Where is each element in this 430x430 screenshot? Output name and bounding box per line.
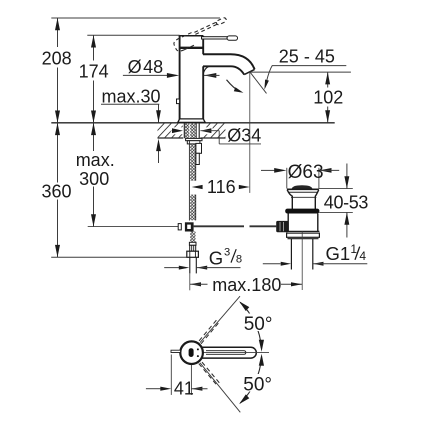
svg-text:360: 360	[41, 182, 71, 202]
svg-text:Ø34: Ø34	[227, 126, 261, 146]
svg-text:max.180: max.180	[212, 275, 281, 295]
svg-text:4: 4	[359, 249, 366, 263]
svg-text:G1: G1	[326, 243, 351, 264]
svg-text:8: 8	[236, 254, 242, 266]
svg-text:50°: 50°	[244, 314, 273, 335]
svg-text:116: 116	[207, 177, 236, 197]
svg-text:300: 300	[79, 169, 109, 189]
svg-text:Ø 48: Ø 48	[128, 57, 164, 77]
svg-text:41: 41	[174, 378, 194, 398]
svg-text:max.: max.	[76, 150, 115, 170]
svg-text:Ø63: Ø63	[288, 162, 324, 183]
svg-text:102: 102	[313, 87, 343, 107]
svg-text:max.30: max.30	[102, 87, 161, 107]
svg-text:1: 1	[350, 242, 357, 256]
svg-text:3: 3	[224, 247, 230, 259]
svg-text:40-53: 40-53	[324, 193, 369, 213]
svg-text:25 - 45: 25 - 45	[279, 46, 335, 66]
svg-text:G: G	[209, 248, 223, 269]
svg-text:208: 208	[42, 48, 72, 68]
svg-text:174: 174	[79, 61, 109, 81]
svg-text:50°: 50°	[243, 375, 272, 396]
